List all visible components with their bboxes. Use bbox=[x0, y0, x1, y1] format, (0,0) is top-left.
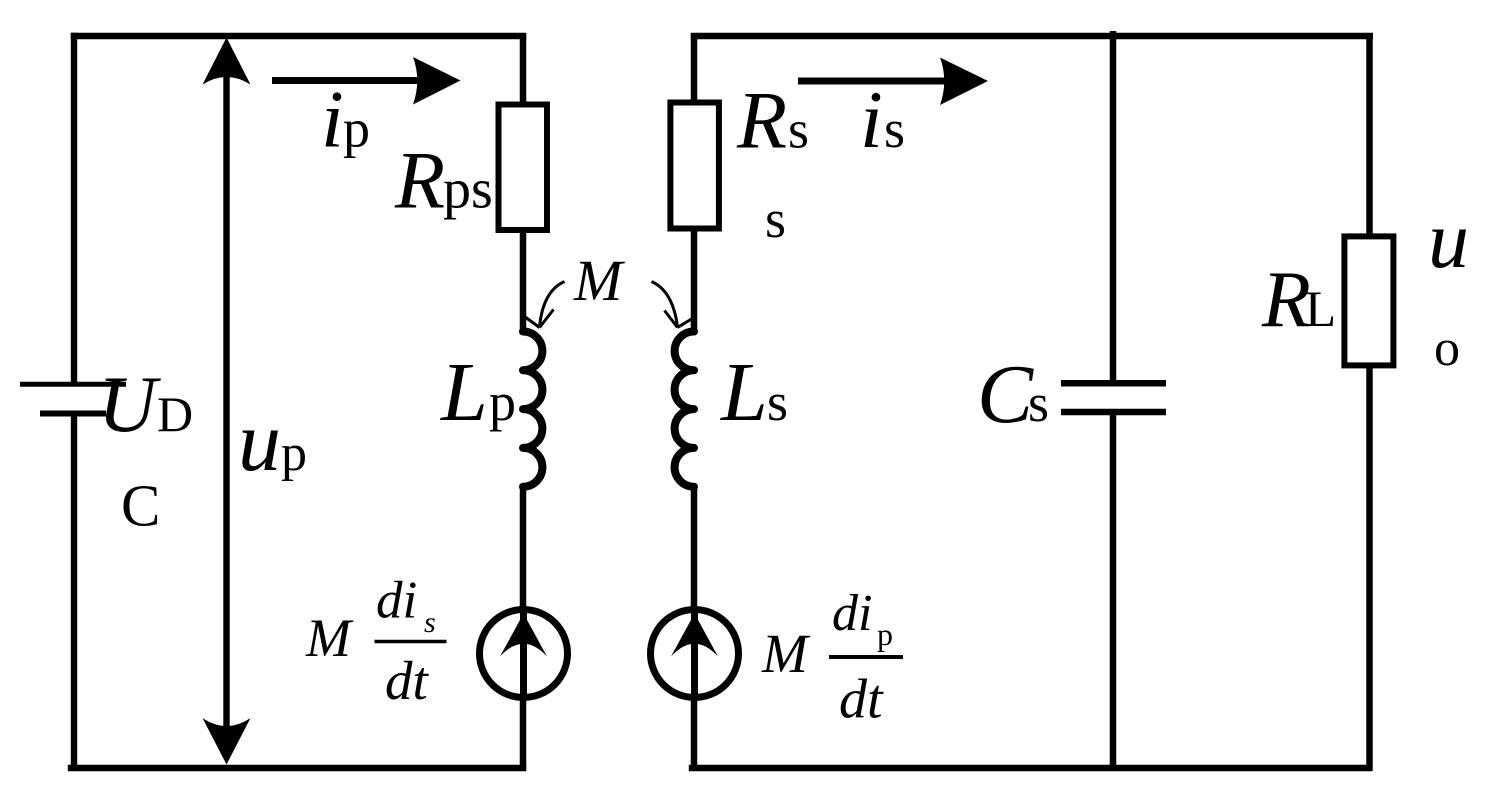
label u_p bbox=[238, 393, 307, 489]
wire: R_L bottom lead bbox=[1366, 363, 1373, 771]
svg-text:i: i bbox=[321, 74, 344, 165]
label i_s bbox=[860, 74, 905, 165]
label M dis/dt bbox=[305, 572, 447, 712]
resistor R_ps bbox=[499, 105, 548, 231]
capacitor C_s top plate bbox=[1061, 380, 1166, 387]
wire: right loop bottom side bbox=[689, 765, 1371, 772]
svg-text:L: L bbox=[1305, 282, 1336, 338]
svg-text:L: L bbox=[440, 346, 488, 439]
svg-text:s: s bbox=[424, 606, 436, 639]
label L_p bbox=[440, 346, 516, 439]
svg-text:i: i bbox=[860, 74, 883, 165]
wire: right source to bottom bbox=[691, 694, 698, 771]
wire: R_ps top lead bbox=[520, 33, 527, 106]
wire: C_s branch upper lead bbox=[1110, 31, 1117, 383]
coupling arrow to L_s bbox=[652, 282, 692, 328]
wire: R_L top lead (right side) bbox=[1366, 33, 1373, 238]
svg-text:M: M bbox=[761, 623, 811, 684]
svg-text:M: M bbox=[305, 608, 354, 668]
wire: left loop top side bbox=[71, 33, 526, 40]
label C_s bbox=[977, 348, 1049, 441]
svg-text:dt: dt bbox=[839, 669, 884, 731]
svg-text:ps: ps bbox=[443, 159, 493, 221]
wire: left loop left side upper (top to battery) bbox=[71, 33, 77, 383]
wire: L_p to controlled source bbox=[520, 484, 527, 614]
svg-text:R: R bbox=[394, 135, 445, 226]
capacitor C_s bottom plate bbox=[1061, 409, 1166, 416]
resistor R_L bbox=[1344, 236, 1393, 365]
inductor L_s bbox=[675, 332, 694, 487]
svg-text:C: C bbox=[121, 473, 160, 539]
svg-text:p: p bbox=[343, 99, 370, 159]
wire: C_s branch lower lead bbox=[1110, 412, 1117, 771]
svg-text:di: di bbox=[376, 572, 417, 630]
battery UDC long plate bbox=[20, 382, 126, 387]
svg-text:u: u bbox=[238, 393, 281, 489]
label M dip/dt bbox=[761, 585, 903, 731]
svg-text:C: C bbox=[977, 348, 1034, 441]
wire: R_ps to L_p bbox=[520, 228, 527, 334]
svg-text:p: p bbox=[281, 425, 307, 482]
wire: left source to bottom bbox=[520, 694, 527, 771]
wire: R_s top lead bbox=[691, 33, 698, 106]
svg-text:L: L bbox=[720, 346, 768, 439]
label L_s bbox=[720, 346, 788, 439]
label i_p bbox=[321, 74, 370, 165]
wire: left loop left side lower (battery to bottom) bbox=[71, 414, 77, 772]
svg-text:s: s bbox=[765, 189, 786, 249]
inductor L_p bbox=[523, 332, 542, 487]
controlled source M dip/dt bbox=[651, 610, 739, 699]
wire: R_s to L_s bbox=[691, 226, 698, 334]
svg-text:dt: dt bbox=[385, 650, 430, 711]
resistor R_s bbox=[670, 103, 719, 229]
wire: right loop top side bbox=[691, 33, 1373, 40]
svg-text:M: M bbox=[573, 248, 625, 313]
svg-text:s: s bbox=[884, 99, 905, 159]
svg-text:s: s bbox=[788, 100, 809, 160]
svg-text:s: s bbox=[1028, 373, 1049, 433]
label UDC bbox=[98, 359, 193, 539]
label R_L bbox=[1261, 256, 1336, 344]
wire: left loop bottom side bbox=[68, 765, 526, 772]
svg-text:di: di bbox=[832, 585, 872, 642]
battery UDC short plate bbox=[40, 411, 106, 417]
wire: L_s to controlled source bbox=[691, 484, 698, 614]
voltage arrow u_p (double-headed vertical) bbox=[203, 38, 251, 765]
svg-text:R: R bbox=[1261, 256, 1311, 344]
controlled source M dis/dt bbox=[480, 610, 568, 699]
svg-text:R: R bbox=[736, 75, 787, 166]
svg-text:u: u bbox=[1428, 194, 1469, 285]
current arrow i_p bbox=[272, 57, 461, 105]
current arrow i_s bbox=[798, 58, 988, 106]
svg-text:p: p bbox=[877, 616, 893, 652]
svg-text:s: s bbox=[767, 372, 788, 432]
svg-text:o: o bbox=[1434, 320, 1460, 377]
svg-text:D: D bbox=[157, 386, 193, 442]
svg-text:U: U bbox=[98, 359, 161, 449]
label R_ps bbox=[394, 135, 493, 226]
svg-text:p: p bbox=[489, 372, 516, 432]
label R_s bbox=[736, 75, 809, 166]
coupling arrow to L_p bbox=[525, 282, 565, 328]
